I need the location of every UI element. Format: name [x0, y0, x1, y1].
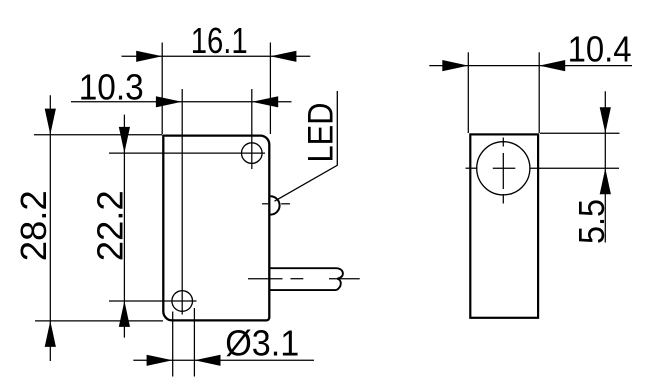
- bottom hole horizontal center line: [109, 300, 197, 302]
- side view body outline: [470, 134, 538, 317]
- arrow D3.1 left: [147, 355, 173, 366]
- side circle vertical center line: [502, 138, 504, 147]
- arrow 10.4 left: [442, 60, 468, 71]
- dimension 5.5 top extension: [540, 132, 620, 134]
- svg-text:Ø3.1: Ø3.1: [225, 322, 299, 363]
- arrow 16.1 left: [136, 51, 162, 62]
- dimension 5.5 line: [604, 91, 606, 242]
- arrow 16.1 right: [270, 51, 296, 62]
- bottom hole vertical center line: [181, 89, 183, 315]
- dimension D3.1 line: [133, 359, 314, 361]
- side view sensing circle: [477, 142, 530, 195]
- dimension D3.1 left extension: [172, 312, 174, 377]
- cable top line: [270, 267, 337, 269]
- dimension 28.2 line: [49, 95, 51, 361]
- dimension D3.1 right extension: [193, 308, 195, 377]
- top hole horizontal center line: [109, 152, 265, 154]
- dimension 10.4 right extension: [538, 52, 540, 133]
- arrow 10.4 right: [539, 60, 565, 71]
- svg-text:10.4: 10.4: [568, 29, 632, 70]
- svg-text:5.5: 5.5: [571, 199, 612, 244]
- arrow 22.2 bottom: [119, 301, 130, 327]
- cable center line: [248, 278, 283, 280]
- cable break (wavy end cap): [337, 268, 343, 290]
- dimension 28.2 top extension: [34, 134, 162, 136]
- LED leader line: [275, 91, 338, 201]
- sensor body outline (front view): [163, 136, 269, 321]
- dimension 10.4 left extension: [467, 52, 469, 133]
- dimension 16.1 line: [122, 55, 311, 57]
- dimension 22.2 line: [123, 115, 125, 338]
- arrow D3.1 right: [195, 355, 221, 366]
- arrow 10.3 left: [156, 96, 182, 107]
- svg-text:22.2: 22.2: [90, 190, 131, 261]
- arrow 10.3 right: [252, 96, 278, 107]
- side circle horizontal center line: [466, 167, 478, 169]
- top hole vertical center line: [251, 89, 253, 169]
- dimension 16.1 left extension: [161, 43, 163, 135]
- dimension 16.1 right extension: [269, 43, 271, 135]
- arrow 28.2 bottom: [45, 321, 56, 347]
- arrow 28.2 top: [45, 109, 56, 135]
- LED bump on right edge: [270, 196, 279, 214]
- LED center line dashes: [262, 203, 268, 205]
- dimension 28.2 bottom extension: [35, 320, 163, 322]
- bottom mounting hole: [172, 291, 193, 312]
- dimension 10.4 line: [429, 65, 632, 67]
- arrow 22.2 top: [119, 127, 130, 153]
- arrow 5.5 bottom: [600, 168, 611, 194]
- svg-text:LED: LED: [301, 103, 340, 163]
- svg-text:10.3: 10.3: [79, 67, 144, 108]
- cable bottom line: [270, 289, 337, 291]
- svg-text:28.2: 28.2: [13, 190, 54, 261]
- top mounting hole: [242, 143, 263, 164]
- svg-text:16.1: 16.1: [191, 20, 248, 61]
- dimension 10.3 line: [71, 101, 292, 103]
- arrow 5.5 top: [600, 107, 611, 133]
